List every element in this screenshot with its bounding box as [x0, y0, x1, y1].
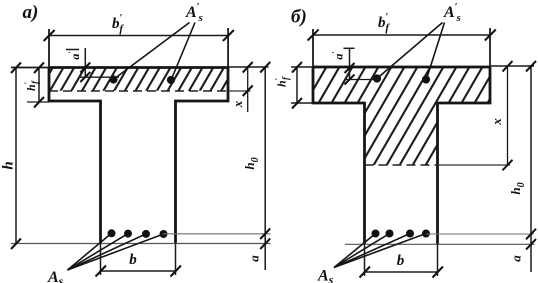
dimension a a — [260, 239, 270, 250]
beam bottom line a — [11, 243, 271, 245]
dimension b b — [364, 244, 366, 276]
dimension x b — [507, 66, 509, 166]
top rebar dot 2 b — [422, 75, 430, 83]
leader A's to dot1 b — [377, 23, 443, 79]
svg-text:b: b — [397, 253, 405, 269]
dimension a b — [526, 239, 536, 250]
svg-text:b: b — [129, 252, 137, 268]
top rebar dot 2 a — [167, 76, 175, 84]
dimension h'f b — [296, 67, 298, 103]
dimension h0 b — [530, 66, 532, 272]
T-section outline a — [49, 68, 228, 244]
neutral axis dashed line a — [49, 90, 228, 92]
dimension b'f a — [49, 35, 228, 37]
top rebar dot 1 b — [373, 74, 381, 82]
bottom rebar dots a — [108, 229, 116, 237]
svg-text:x: x — [489, 118, 504, 126]
dimension x a — [247, 66, 249, 112]
top flange extension line left a — [11, 67, 49, 69]
svg-text:h: h — [1, 161, 17, 169]
neutral axis dashed line b — [365, 164, 438, 166]
dimension h0 a — [264, 67, 266, 270]
rebar level line b — [424, 233, 534, 235]
rebar level line a — [162, 233, 271, 235]
dimension b a — [100, 244, 102, 276]
leaders As a — [68, 233, 112, 270]
svg-text:б): б) — [291, 7, 307, 28]
top flange extension left b — [291, 66, 313, 68]
svg-text:a: a — [247, 255, 262, 262]
dimension h left a — [15, 68, 17, 244]
leader A's to dot2 b — [427, 23, 445, 80]
dimension h'f a — [38, 68, 40, 103]
leader A's to dot2 a — [172, 23, 196, 80]
top flange extension line right a — [228, 66, 269, 68]
top flange extension right b — [490, 65, 534, 67]
leader A's to dot1 a — [114, 23, 190, 80]
T-section outline b — [313, 67, 490, 244]
svg-text:x: x — [230, 100, 245, 108]
beam bottom line b — [345, 243, 535, 245]
flange bottom extension left b — [291, 102, 313, 104]
leaders As b — [334, 234, 376, 268]
dimension a' a — [84, 48, 86, 77]
top rebar dot 1 a — [109, 75, 117, 83]
dimension a' b — [349, 48, 351, 80]
svg-text:а): а) — [23, 2, 39, 23]
dimension b'f b — [313, 34, 490, 36]
svg-text:a: a — [509, 255, 524, 262]
bottom rebar dots b — [372, 230, 380, 238]
